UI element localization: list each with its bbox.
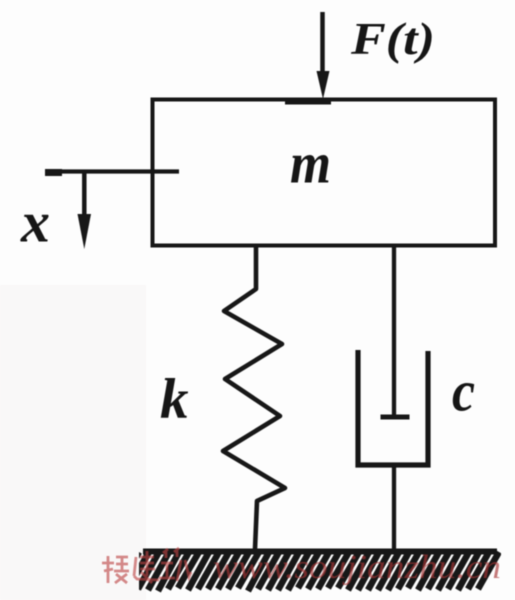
- force arrow F(t): [317, 12, 330, 99]
- svg-text:x: x: [20, 190, 50, 255]
- svg-text:c: c: [452, 359, 475, 424]
- damper lower rod: [392, 465, 396, 551]
- damper cylinder: [358, 350, 428, 465]
- watermark red text: [102, 548, 191, 583]
- ground hatching: [118, 552, 499, 591]
- displacement reference line: [45, 169, 179, 176]
- displacement arrow x: [78, 171, 92, 249]
- spring k: [223, 246, 285, 549]
- svg-text:F(t): F(t): [350, 13, 435, 64]
- mass block m: [153, 100, 496, 246]
- svg-text:m: m: [290, 131, 331, 196]
- svg-text:www.soujianzhu.cn: www.soujianzhu.cn: [213, 549, 501, 586]
- damper piston rod: [392, 246, 396, 415]
- ground line: [143, 549, 497, 555]
- svg-text:k: k: [160, 368, 189, 431]
- damper piston plate: [381, 415, 410, 420]
